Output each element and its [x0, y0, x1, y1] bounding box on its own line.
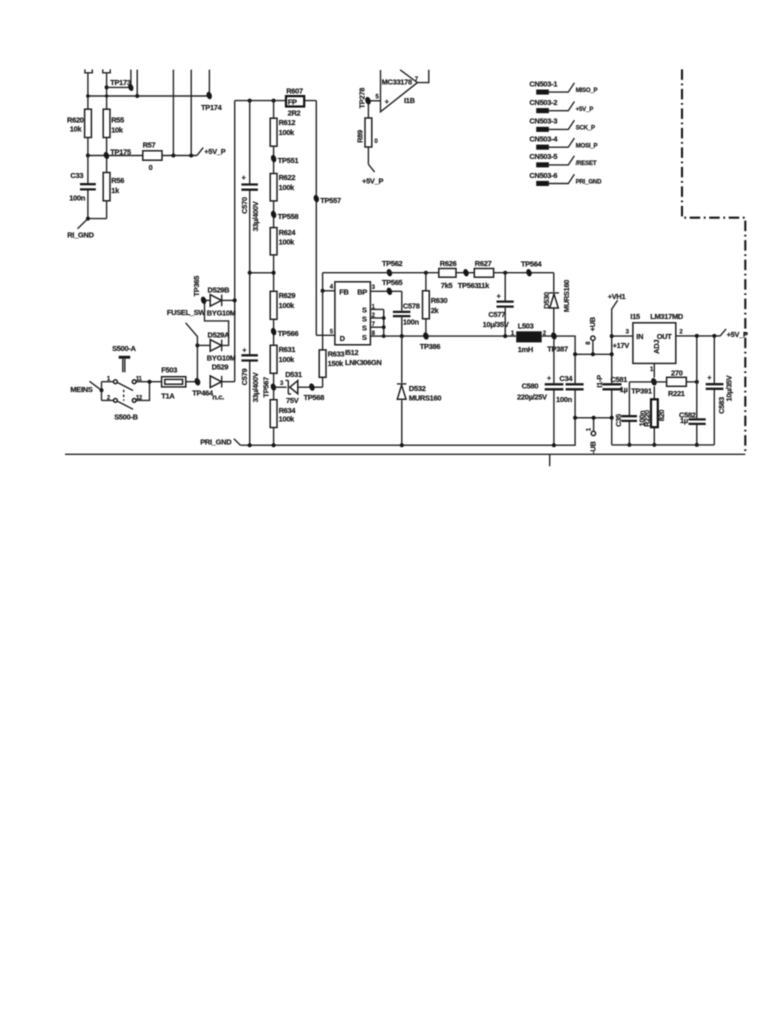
wire left rail x234.7 — [234, 101, 236, 382]
resistor R620 — [67, 109, 91, 137]
wire +5V_P row y155.5 — [88, 155, 197, 157]
svg-text:I1-P: I1-P — [595, 375, 604, 388]
test point TP563 — [458, 268, 479, 290]
connector pin 1 -UB — [586, 418, 597, 454]
node junction x505.2 y272.7 — [503, 271, 507, 275]
wire top y100.6 — [235, 100, 317, 102]
node junction R220 rail — [652, 443, 656, 447]
terminal stub left — [85, 69, 92, 72]
connector pin 8 +UB — [586, 317, 597, 354]
svg-text:0: 0 — [149, 163, 153, 172]
svg-text:D531: D531 — [285, 370, 302, 379]
border tick mark — [549, 454, 551, 466]
test point TP365 — [192, 276, 207, 305]
net MEINS flag — [70, 381, 101, 394]
svg-text:TP568: TP568 — [304, 393, 325, 402]
test point TP391 — [631, 377, 657, 395]
diode D529 n.c. — [210, 362, 235, 401]
node junction x191.2 y155.5 — [189, 154, 193, 158]
node junction x696.8 y381.9 — [695, 380, 699, 384]
terminal stub right — [103, 69, 110, 72]
svg-text:-UB: -UB — [589, 441, 598, 453]
test point TP386 — [420, 332, 441, 351]
svg-text:R56: R56 — [111, 176, 124, 185]
wire chain to TP567 — [273, 373, 275, 399]
svg-text:100k: 100k — [279, 237, 296, 246]
svg-text:R55: R55 — [111, 115, 124, 124]
IC I512 LNK306GN — [335, 282, 382, 367]
wire source row y336.1 — [384, 335, 517, 337]
node junction x149.5 y381.7 — [148, 380, 152, 384]
node junction C582 rail — [695, 443, 699, 447]
svg-text:R631: R631 — [279, 345, 296, 354]
pin 7 S stub — [370, 322, 383, 328]
svg-text:FB: FB — [339, 288, 348, 297]
svg-text:+5V_P: +5V_P — [362, 177, 383, 186]
svg-text:33µ/400V: 33µ/400V — [251, 201, 260, 231]
svg-text:MC33178: MC33178 — [382, 77, 412, 86]
svg-text:100n: 100n — [69, 193, 86, 202]
wire IN row — [612, 329, 633, 349]
svg-text:MURS160: MURS160 — [409, 393, 441, 402]
capacitor C580 — [517, 339, 563, 445]
node junction x575.1 y417.8 — [573, 416, 577, 420]
test point TP464 — [192, 377, 214, 397]
node junction x173.4 y155.5 — [171, 154, 175, 158]
pin 1 S stub — [370, 304, 383, 310]
svg-text:R57: R57 — [143, 141, 156, 150]
svg-text:RI_GND: RI_GND — [67, 230, 94, 239]
IC I15 LM317MD — [630, 312, 683, 363]
svg-text:MEINS: MEINS — [70, 385, 92, 394]
node junction x106.6 y96 — [105, 94, 108, 97]
svg-text:TP563: TP563 — [458, 281, 479, 290]
svg-text:n.c.: n.c. — [212, 392, 224, 401]
wire +VH1 column x611.7 — [611, 336, 613, 445]
resistor R627 — [474, 259, 493, 290]
svg-text:C35: C35 — [614, 414, 623, 427]
test point TP562 — [382, 259, 403, 277]
net +5V_P flag top-left — [197, 147, 226, 156]
node junction x575.1 y354.3 — [573, 352, 577, 356]
svg-text:+17V: +17V — [613, 341, 630, 350]
node junction bracket y327.2 — [382, 325, 386, 329]
svg-text:CN503-1: CN503-1 — [529, 79, 557, 88]
wire R221 riser x696.8 — [696, 336, 698, 445]
connector pin CN503-2 net +5V_P — [529, 98, 593, 113]
svg-text:10µ/35V: 10µ/35V — [483, 320, 509, 329]
resistor R633 — [319, 349, 344, 377]
node junction x87.9 y218.6 — [86, 217, 90, 221]
wire switch to fuse — [136, 382, 162, 401]
resistor R221 — [667, 368, 697, 398]
node junction x401.8 rail — [400, 443, 404, 447]
svg-text:100n: 100n — [556, 395, 573, 404]
svg-text:33µ/400V: 33µ/400V — [251, 372, 260, 402]
capacitor C577 — [483, 273, 514, 336]
svg-text:11k: 11k — [478, 281, 490, 290]
test point TP387 — [547, 332, 568, 354]
svg-text:TP562: TP562 — [382, 259, 403, 268]
svg-text:BP: BP — [357, 288, 367, 297]
svg-text:R629: R629 — [279, 291, 296, 300]
wire vertical x209.4 — [208, 70, 210, 92]
svg-text:2R2: 2R2 — [288, 109, 301, 118]
node junction x592.9 y354.3 — [591, 352, 595, 356]
pin 1 ADJ stub — [650, 363, 654, 377]
svg-text:+5V_P: +5V_P — [204, 147, 225, 156]
svg-text:1µ: 1µ — [620, 385, 628, 394]
sheet boundary dash-dot — [682, 69, 745, 454]
svg-text:T1A: T1A — [161, 391, 175, 400]
svg-text:+UB: +UB — [588, 317, 597, 331]
svg-text:C570: C570 — [240, 197, 249, 214]
connector pin CN503-4 net MOSI_P — [529, 135, 597, 150]
svg-text:D529: D529 — [212, 362, 229, 371]
pin 8 S stub — [370, 331, 383, 337]
net FUSEL_SW flag — [167, 308, 206, 346]
wire bottom y218.6 — [88, 218, 107, 220]
svg-text:D529B: D529B — [208, 285, 230, 294]
svg-text:10k: 10k — [111, 125, 124, 134]
node junction x401.8 y336.1 — [400, 334, 404, 338]
svg-text:2k: 2k — [431, 306, 440, 315]
node junction rail x273.6 — [272, 443, 276, 447]
resistor R89 — [356, 104, 379, 164]
node junction MEINS — [100, 388, 104, 392]
svg-text:S: S — [362, 315, 367, 324]
svg-text:100k: 100k — [279, 128, 296, 137]
pin 5 D stub — [316, 329, 335, 335]
node junction x611.7 y354.3 — [610, 352, 614, 356]
node junction x249.7 y272.8 — [248, 271, 252, 275]
resistor R626 — [439, 259, 457, 290]
svg-text:CN503-6: CN503-6 — [529, 171, 557, 180]
resistor R56 — [103, 159, 124, 219]
node junction x714.3 y335.9 — [712, 334, 716, 338]
switch S500-A — [102, 344, 143, 401]
net RI_GND flag — [67, 219, 94, 240]
svg-text:C581: C581 — [610, 375, 627, 384]
svg-text:+5V_P: +5V_P — [576, 106, 594, 113]
svg-text:SCK_P: SCK_P — [576, 125, 595, 132]
svg-text:TP173: TP173 — [110, 78, 131, 87]
wire op-amp +input — [371, 100, 381, 102]
resistor R634 — [270, 400, 296, 428]
wire R634 to rail — [273, 428, 275, 446]
svg-text:LM317MD: LM317MD — [650, 312, 684, 321]
inductor L503 — [511, 321, 547, 354]
svg-text:C577: C577 — [488, 310, 505, 319]
node junction x611.7 y417.8 — [610, 416, 614, 420]
svg-text:S: S — [362, 324, 367, 333]
svg-text:IN: IN — [636, 332, 643, 341]
svg-text:150k: 150k — [328, 359, 345, 368]
wire S bracket — [383, 309, 385, 336]
pin 4 FB stub — [323, 285, 335, 291]
svg-text:CN503-2: CN503-2 — [529, 98, 557, 107]
svg-text:75V: 75V — [286, 396, 299, 405]
svg-text:+VH1: +VH1 — [608, 292, 626, 301]
svg-text:BYG10M: BYG10M — [207, 308, 236, 317]
wire TP173 tap — [107, 86, 129, 88]
connector pin CN503-3 net SCK_P — [529, 117, 595, 132]
node junction x249.7 y100.6 — [248, 99, 252, 103]
wire OUT row — [676, 329, 720, 336]
node junction x87.9 y155.5 — [86, 154, 90, 158]
net PRI_GND flag bottom — [200, 438, 240, 447]
svg-text:TP557: TP557 — [320, 196, 341, 205]
svg-text:TP567: TP567 — [262, 377, 271, 398]
svg-text:TP365: TP365 — [192, 276, 201, 297]
svg-text:TP391: TP391 — [631, 387, 652, 396]
svg-text:CN503-3: CN503-3 — [529, 117, 557, 126]
test point TP566 — [270, 319, 299, 345]
wire R620 bottom — [87, 138, 89, 156]
svg-text:R626: R626 — [440, 259, 457, 268]
svg-text:R612: R612 — [279, 118, 296, 127]
svg-text:CN503-4: CN503-4 — [529, 135, 558, 144]
net label I1-P — [595, 375, 604, 388]
svg-text:270: 270 — [671, 368, 683, 377]
svg-text:TP551: TP551 — [278, 156, 299, 165]
resistor R622 — [270, 173, 295, 201]
svg-text:TP464: TP464 — [192, 389, 214, 398]
svg-text:TP278: TP278 — [357, 88, 366, 109]
svg-text:FP: FP — [288, 98, 297, 107]
wire TP562 row y272.7 — [323, 272, 554, 274]
op-amp I1B MC33178 (clipped) — [376, 70, 419, 112]
capacitor C35 — [614, 382, 647, 445]
resistor R607 FP — [286, 87, 304, 118]
wire TP464 riser — [196, 345, 198, 381]
svg-text:R627: R627 — [475, 259, 492, 268]
svg-text:R620: R620 — [67, 115, 84, 124]
svg-text:D530: D530 — [542, 292, 551, 309]
svg-text:TP566: TP566 — [278, 329, 299, 338]
pin 3 BP stub — [370, 285, 401, 291]
test point TP557 — [313, 194, 341, 205]
test point TP551 — [270, 146, 299, 173]
test point TP278 — [357, 88, 371, 109]
svg-text:I1B: I1B — [404, 96, 415, 105]
node junction x87.9 y96 — [86, 94, 90, 98]
node junction FB x322.6 — [321, 289, 325, 293]
svg-text:BYG10M: BYG10M — [207, 353, 236, 362]
node junction rail x249.7 — [248, 443, 252, 447]
test point TP173 — [110, 78, 134, 91]
wire vertical x137.2 — [136, 70, 138, 96]
svg-text:TP175: TP175 — [110, 148, 131, 157]
svg-text:10µ/35V: 10µ/35V — [725, 375, 734, 401]
resistor R55 — [103, 109, 124, 137]
net +VH1 flag — [608, 292, 626, 336]
resistor R220 — [643, 386, 667, 445]
test point TP175 — [103, 148, 131, 160]
svg-text:C579: C579 — [240, 369, 249, 386]
svg-text:R622: R622 — [279, 173, 296, 182]
diode D532 — [397, 336, 441, 445]
svg-text:MISO_P: MISO_P — [576, 87, 598, 94]
svg-text:R630: R630 — [431, 296, 448, 305]
svg-text:R89: R89 — [356, 130, 365, 143]
svg-text:100k: 100k — [279, 183, 296, 192]
capacitor C33 — [69, 156, 96, 219]
wire fuse to TP464 — [186, 381, 200, 383]
capacitor C579 — [240, 273, 260, 445]
node junction x197.4 y345.4 — [195, 343, 199, 347]
svg-text:R633: R633 — [328, 349, 345, 358]
svg-text:100n: 100n — [403, 318, 420, 327]
svg-text:FUSEL_SW: FUSEL_SW — [167, 308, 206, 317]
wire L503 out to corner — [542, 336, 575, 354]
resistor R612 — [270, 101, 295, 147]
test point TP567 — [262, 377, 277, 398]
svg-text:ADJ: ADJ — [652, 340, 661, 354]
svg-text:TP564: TP564 — [521, 260, 543, 269]
node junction bracket y318 — [382, 316, 386, 320]
wire vertical x88 top — [87, 73, 89, 109]
fuse F503 — [161, 365, 186, 400]
wire link C570 chain y272.8 — [250, 272, 274, 274]
connector pin CN503-5 net /RESET — [529, 152, 596, 167]
svg-text:100k: 100k — [279, 301, 296, 310]
node junction C35 rail — [627, 443, 631, 447]
capacitor C581 — [603, 375, 628, 394]
svg-text:PRI_GND: PRI_GND — [576, 179, 602, 186]
svg-text:MURS160: MURS160 — [562, 280, 571, 312]
wire chain mid — [273, 255, 275, 291]
node junction R55 TP173 tap — [105, 85, 109, 89]
wire right rail y444.9 — [612, 444, 715, 446]
svg-text:/RESET: /RESET — [576, 160, 597, 167]
test point TP174 — [201, 91, 223, 112]
svg-text:F503: F503 — [161, 365, 177, 374]
connector pin CN503-1 net MISO_P — [529, 79, 597, 94]
svg-text:C578: C578 — [403, 302, 420, 311]
diode D529B — [206, 285, 236, 317]
switch S500-B — [107, 390, 143, 422]
capacitor C578 — [393, 291, 420, 336]
svg-text:S: S — [362, 305, 367, 314]
capacitor C570 — [240, 101, 260, 273]
svg-text:220µ/25V: 220µ/25V — [517, 393, 547, 402]
svg-text:S: S — [362, 333, 367, 342]
node junction x273.6 y272.8 — [272, 271, 276, 275]
resistor R631 — [270, 345, 295, 373]
wire PRI_GND rail — [240, 418, 575, 445]
svg-text:1mH: 1mH — [518, 345, 533, 354]
wire horizontal y96 — [88, 95, 208, 97]
node junction x611.7 y336.1 — [610, 334, 614, 338]
wire vertical x130.9 — [130, 70, 132, 85]
svg-text:1µ: 1µ — [680, 416, 688, 425]
node junction x425.9 y272.7 — [424, 271, 428, 275]
diode D530 — [542, 273, 571, 333]
svg-text:C33: C33 — [70, 171, 83, 180]
svg-text:100k: 100k — [279, 355, 296, 364]
wire vertical x191.2 — [190, 70, 192, 156]
zener diode D531 — [274, 370, 309, 405]
svg-text:I512: I512 — [345, 348, 359, 357]
svg-text:R221: R221 — [668, 389, 685, 398]
wire TP557 column x316.3 — [315, 101, 317, 336]
svg-text:LNK306GN: LNK306GN — [345, 358, 382, 367]
svg-text:R624: R624 — [279, 228, 297, 237]
svg-text:L503: L503 — [518, 321, 534, 330]
svg-text:100k: 100k — [279, 415, 296, 424]
capacitor C583 — [706, 336, 734, 445]
svg-text:I15: I15 — [630, 312, 640, 321]
resistor R629 — [270, 291, 295, 319]
svg-text:TP174: TP174 — [201, 103, 223, 112]
connector pin CN503-6 net PRI_GND — [529, 171, 602, 186]
svg-text:D529A: D529A — [208, 330, 231, 339]
svg-text:1k: 1k — [111, 186, 120, 195]
wire ADJ row y381.9 — [629, 381, 666, 383]
test point TP558 — [270, 201, 299, 228]
svg-text:C580: C580 — [522, 382, 539, 391]
wire +UB row y354.3 — [575, 353, 612, 355]
resistor R630 — [423, 273, 448, 333]
svg-text:S500-B: S500-B — [114, 413, 138, 422]
test point TP564 — [521, 260, 543, 278]
svg-text:TP565: TP565 — [382, 278, 403, 287]
node junction x273.6 y100.6 — [272, 99, 276, 103]
svg-text:CN503-5: CN503-5 — [529, 152, 557, 161]
capacitor C34 — [556, 354, 584, 418]
svg-text:TP387: TP387 — [547, 345, 568, 354]
svg-text:7k5: 7k5 — [441, 281, 453, 290]
node junction x137.2 y96 — [135, 94, 139, 98]
node junction C580 rail — [552, 443, 556, 447]
wire R55 bottom — [106, 138, 108, 153]
resistor R624 — [270, 228, 296, 255]
node junction x234.7 y300.4 — [233, 298, 237, 302]
node junction bracket y336.1 — [382, 334, 386, 338]
svg-text:TP386: TP386 — [420, 342, 441, 351]
svg-text:S500-A: S500-A — [112, 344, 136, 353]
wire FB riser to TP562 row and down to R633 — [322, 273, 324, 350]
svg-text:C34: C34 — [559, 374, 573, 383]
test point TP565 — [382, 278, 403, 296]
test point TP568 — [304, 377, 325, 402]
wire op-amp output — [417, 70, 428, 83]
wire vertical x106.6 top — [106, 73, 108, 109]
resistor R57 — [143, 141, 162, 173]
wire vertical x173.4 — [172, 70, 174, 156]
pin 2 S stub — [370, 313, 383, 319]
svg-text:R220: R220 — [643, 410, 652, 427]
node junction x696.8 y335.9 — [695, 334, 699, 338]
net +5V_P flag out — [720, 329, 748, 339]
net +5V_P flag opamp — [362, 164, 383, 185]
svg-text:PRI_GND: PRI_GND — [200, 438, 232, 447]
sheet border bottom — [65, 453, 745, 455]
svg-text:10k: 10k — [70, 125, 83, 134]
svg-text:R607: R607 — [286, 87, 303, 96]
svg-text:D: D — [340, 334, 346, 343]
node junction x593.6 y417.8 — [592, 416, 596, 420]
svg-text:MOSI_P: MOSI_P — [576, 142, 598, 149]
svg-text:820: 820 — [657, 410, 666, 422]
capacitor C582 — [679, 411, 706, 426]
node junction x505.2 y336.1 — [503, 334, 507, 338]
svg-text:TP558: TP558 — [278, 212, 299, 221]
svg-text:D532: D532 — [409, 384, 426, 393]
wire -UB row y417.8 — [575, 417, 612, 419]
diode D529A — [197, 303, 235, 363]
